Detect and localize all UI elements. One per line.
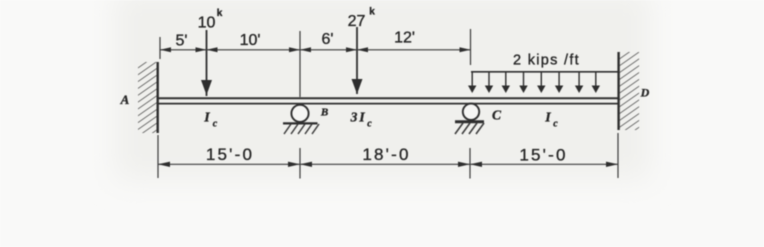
section label Ic (span AB) (203, 111, 218, 130)
tick below support C (469, 148, 471, 179)
roller support C (455, 104, 484, 134)
svg-text:k: k (369, 7, 375, 18)
tick at x=160 (159, 37, 161, 59)
svg-text:c: c (367, 119, 372, 130)
svg-text:c: c (213, 119, 218, 130)
svg-text:12': 12' (394, 30, 415, 47)
svg-text:D: D (640, 86, 650, 100)
svg-text:6': 6' (322, 31, 334, 48)
tick below wall A (157, 135, 159, 178)
svg-text:27: 27 (348, 13, 366, 30)
svg-text:10': 10' (240, 32, 261, 49)
tick below support B (299, 148, 301, 179)
bottom dimension arrowheads (158, 162, 618, 167)
svg-text:15'-0: 15'-0 (206, 145, 254, 164)
top dimension arrowheads (160, 47, 471, 52)
svg-text:c: c (553, 119, 558, 130)
section label 3Ic (span BC) (350, 110, 373, 130)
svg-text:18'-0: 18'-0 (362, 145, 410, 164)
top dimension line (160, 29, 471, 97)
tick line at x=300 down to beam (299, 31, 301, 97)
fixed support D (right wall) (619, 52, 640, 130)
tick below wall D (617, 133, 619, 178)
svg-text:I: I (358, 111, 365, 126)
svg-text:C: C (492, 108, 502, 123)
distributed load 2 kips/ft (468, 72, 618, 93)
point load 27k arrow (352, 27, 363, 94)
roller support B (283, 105, 319, 134)
svg-text:2 kips /ft: 2 kips /ft (513, 53, 580, 69)
svg-text:B: B (320, 107, 328, 119)
svg-text:I: I (544, 111, 551, 126)
tick at x=470.5 (470, 29, 472, 65)
svg-text:3: 3 (350, 110, 358, 125)
svg-text:15'-0: 15'-0 (519, 146, 567, 165)
svg-text:A: A (120, 92, 130, 107)
beam (double line from A to D) (157, 98, 619, 103)
section label Ic (span CD) (544, 111, 558, 130)
svg-text:10: 10 (198, 15, 216, 32)
fixed support A (left wall) (138, 62, 158, 133)
svg-text:5': 5' (176, 33, 188, 50)
bottom dimension line (158, 133, 618, 179)
svg-text:k: k (217, 8, 223, 19)
point load 10k arrow (201, 30, 212, 96)
svg-text:I: I (203, 111, 210, 126)
